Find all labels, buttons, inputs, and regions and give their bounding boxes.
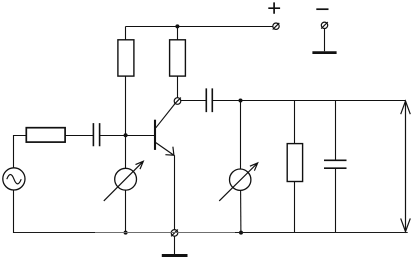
terminal X3 collector tap [174, 98, 181, 105]
source G1 sine generator [3, 168, 25, 190]
wire minus terminal to ground [324, 29, 326, 52]
resistor Ri source internal [26, 128, 65, 142]
minus sign supply [316, 8, 328, 10]
wire base node to meter P1 [125, 136, 127, 169]
wire source top lead [14, 136, 27, 168]
capacitor C1 coupling input [93, 123, 99, 146]
terminal X2 minus supply [321, 22, 328, 29]
wire CL top lead [335, 101, 337, 161]
plus sign supply [268, 2, 280, 13]
wire output rail C2 to arrow [212, 100, 405, 102]
wire output node to meter P2 [240, 101, 242, 170]
wire terminal X4 to ground [174, 236, 176, 254]
ground emitter [162, 254, 188, 257]
node base junction [124, 133, 128, 137]
wire meter P1 to bottom rail [125, 190, 127, 232]
resistor R1 [118, 40, 134, 76]
wire emitter to bottom terminal [174, 155, 176, 229]
wire RL top lead [294, 101, 296, 144]
terminal X1 plus supply [273, 23, 280, 30]
resistor RL load [287, 144, 302, 182]
wire RL bottom lead [294, 182, 296, 233]
wire R1 bottom lead to base node [125, 76, 127, 135]
wire bottom ground rail [14, 232, 408, 234]
transistor Q1 base bar [154, 120, 156, 150]
node output junction [239, 99, 243, 103]
wire R2 top lead [177, 27, 179, 41]
wire top supply rail [126, 26, 273, 28]
wire CL bottom lead [335, 168, 337, 232]
node meter P1 bottom junction [124, 231, 128, 235]
wire R1 top lead [125, 27, 127, 41]
ground minus supply [312, 51, 336, 54]
wire collector terminal to C2 [181, 100, 206, 102]
wire meter P2 to bottom rail [240, 190, 242, 232]
terminal X4 emitter ground tap [171, 230, 178, 237]
meter P2 voltmeter output [219, 163, 258, 201]
wire R2 bottom lead to collector terminal [177, 76, 179, 98]
capacitor C2 coupling output [206, 88, 212, 112]
wire C1 to base [100, 135, 155, 137]
wire Ri to C1 [65, 135, 93, 137]
node meter P2 bottom junction [239, 231, 243, 235]
capacitor CL load [324, 160, 347, 168]
wire source bottom lead [13, 190, 15, 233]
transistor Q1 emitter lead with arrow [156, 143, 174, 156]
resistor R2 [170, 40, 186, 76]
meter P1 voltmeter base [104, 161, 144, 201]
node junction top rail / R2 [175, 24, 179, 28]
arrow output voltage measurement [401, 101, 411, 232]
transistor Q1 collector lead [156, 104, 175, 128]
